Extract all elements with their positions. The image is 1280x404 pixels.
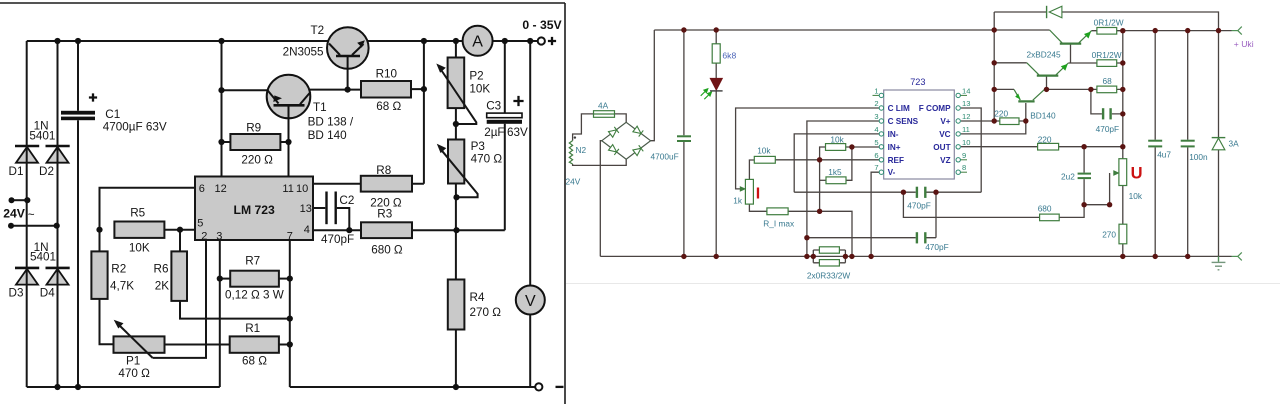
resistor 220 out — [1038, 143, 1059, 150]
transistor BD140 — [1014, 89, 1045, 101]
resistor R4 — [448, 280, 465, 330]
svg-text:3A: 3A — [1229, 139, 1240, 149]
svg-text:1: 1 — [874, 86, 878, 95]
svg-text:IN-: IN- — [888, 130, 899, 139]
svg-text:9: 9 — [962, 151, 966, 160]
svg-text:C1: C1 — [105, 108, 120, 121]
svg-text:6: 6 — [199, 183, 205, 195]
svg-text:P1: P1 — [126, 355, 140, 368]
svg-text:C SENS: C SENS — [888, 117, 919, 126]
transistor BD245 b — [1027, 63, 1069, 76]
wire 2x0R33 forks — [807, 250, 846, 263]
svg-text:0R1/2W: 0R1/2W — [1092, 50, 1122, 60]
IC 723 pin circles left — [873, 93, 884, 174]
svg-text:2: 2 — [874, 99, 878, 108]
resistor R9 — [230, 134, 280, 150]
resistor R10 — [361, 81, 411, 98]
transformer N2 winding — [569, 141, 572, 164]
resistor R1 — [230, 336, 279, 352]
diode D2 — [46, 146, 70, 163]
svg-text:R6: R6 — [154, 263, 169, 276]
IC pin numbers left — [874, 86, 878, 172]
wire 10k upper right to IN+ — [846, 146, 880, 148]
capacitor C3 — [487, 96, 524, 124]
ground — [1212, 256, 1226, 269]
svg-text:5401: 5401 — [30, 250, 56, 263]
svg-text:470pF: 470pF — [925, 242, 949, 252]
IC 723 box — [884, 90, 955, 179]
wire VC elbow — [961, 121, 1026, 134]
terminal + output — [538, 37, 556, 45]
wire BD245b emitter to 0R1 — [1068, 62, 1123, 64]
wire left column D1/D3 — [26, 41, 28, 387]
junction dots right schematic — [681, 27, 1221, 259]
wire pin12 column — [221, 41, 223, 177]
potentiometer P2 — [436, 58, 476, 125]
potentiometer 10k voltage — [1114, 159, 1127, 186]
bridge diode bottom-right — [633, 145, 644, 156]
svg-text:2u2: 2u2 — [1061, 172, 1075, 182]
svg-text:R9: R9 — [246, 122, 261, 135]
wire C2 right elbow — [337, 208, 350, 230]
wire pin2 column to P1 wiper — [153, 240, 206, 358]
svg-text:OUT: OUT — [933, 143, 950, 152]
svg-text:100n: 100n — [1189, 152, 1208, 162]
svg-text:11: 11 — [282, 183, 293, 195]
wire transformer bottom to bridge bottom — [573, 159, 627, 165]
svg-text:6k8: 6k8 — [722, 51, 736, 61]
wire C SENS loop — [807, 121, 879, 256]
IC U1 LM723 — [195, 177, 313, 241]
svg-text:BD140: BD140 — [1030, 111, 1056, 121]
wire 470pF right elbow — [1091, 89, 1123, 114]
resistor 2x0R33 lower — [819, 260, 839, 266]
svg-text:12: 12 — [215, 183, 227, 195]
wire pin10 to R8 — [313, 183, 361, 185]
svg-text:10k: 10k — [830, 135, 844, 145]
svg-text:470 Ω: 470 Ω — [118, 367, 150, 380]
wire 3A diode column — [1218, 31, 1220, 257]
capacitor 4700uF — [677, 135, 691, 142]
svg-text:P2: P2 — [469, 70, 483, 83]
svg-text:D4: D4 — [40, 286, 55, 299]
wire 10k upper left elbow — [820, 147, 826, 211]
wire fuse to bridge top — [615, 114, 627, 122]
wire T1 collector to R10 — [310, 89, 362, 91]
svg-text:7: 7 — [287, 230, 293, 242]
svg-text:~: ~ — [28, 209, 35, 222]
wire pin4 to R3 — [313, 229, 361, 231]
bridge diode bottom-left — [608, 144, 619, 155]
svg-text:7: 7 — [874, 163, 878, 172]
resistor 68 — [1097, 86, 1117, 93]
wire BD140 base stem — [1025, 103, 1027, 121]
wire pin13 to C2 — [313, 207, 325, 209]
wire bottom rail left — [27, 386, 220, 388]
svg-text:3: 3 — [874, 112, 878, 121]
wire pin6 column — [100, 188, 196, 345]
svg-text:24V: 24V — [566, 176, 581, 186]
wire 24V input lower — [11, 225, 57, 227]
svg-text:723: 723 — [910, 77, 925, 87]
diode D1 — [15, 146, 39, 163]
wire R9 left — [222, 141, 231, 143]
svg-text:220: 220 — [994, 109, 1008, 119]
svg-text:4: 4 — [874, 125, 878, 134]
wire minus bus — [600, 255, 1231, 257]
svg-text:2: 2 — [201, 230, 207, 242]
resistor 10k left — [754, 156, 775, 163]
wire R5 right to pin5 — [164, 229, 195, 231]
svg-text:13: 13 — [962, 99, 970, 108]
diode top — [1047, 6, 1062, 18]
wire V+ pin12 — [961, 120, 994, 122]
svg-text:10: 10 — [296, 183, 308, 195]
diode D4 — [46, 268, 70, 285]
svg-text:11: 11 — [962, 125, 970, 134]
svg-text:0R1/2W: 0R1/2W — [1094, 18, 1124, 28]
wire column V meter — [529, 41, 531, 387]
wire bottom rail right — [290, 386, 536, 388]
resistor 0R1/2W b — [1097, 60, 1117, 67]
resistor R3 — [361, 222, 412, 238]
wire top diode row — [994, 12, 1218, 31]
capacitor 4u7 — [1148, 140, 1162, 148]
terminal - output — [535, 383, 563, 390]
svg-text:4: 4 — [304, 224, 310, 236]
svg-text:BD 140: BD 140 — [308, 129, 347, 142]
LED D5 — [701, 78, 723, 99]
svg-text:R5: R5 — [130, 206, 145, 219]
capacitor 100n — [1181, 140, 1195, 148]
wire V- column — [871, 172, 879, 256]
capacitor C1 — [61, 93, 97, 120]
svg-text:BD 138 /: BD 138 / — [308, 116, 354, 129]
wire pin7 column — [289, 240, 291, 387]
svg-text:10K: 10K — [469, 83, 490, 96]
capacitor 470pF lower — [916, 232, 927, 243]
ammeter A — [463, 26, 493, 56]
svg-text:270: 270 — [1102, 230, 1116, 240]
wire R3 right to C3 column — [412, 229, 505, 231]
capacitor 470pF comp — [916, 187, 927, 198]
svg-text:0 - 35V: 0 - 35V — [522, 18, 562, 32]
svg-text:24V: 24V — [3, 206, 26, 220]
wire BD245b collector row — [994, 62, 1027, 64]
svg-text:63V: 63V — [507, 126, 528, 139]
wire R_I max right to bus — [788, 211, 852, 256]
svg-text:T1: T1 — [313, 101, 327, 114]
svg-text:680 Ω: 680 Ω — [371, 244, 403, 257]
wire BD245a emitter to 0R1 — [1092, 30, 1123, 32]
capacitor 2u2 — [1078, 173, 1091, 180]
svg-text:+ Uki: + Uki — [1234, 39, 1254, 49]
svg-text:IN+: IN+ — [888, 143, 901, 152]
svg-text:470pF: 470pF — [321, 233, 354, 246]
resistor R_I max — [767, 208, 788, 215]
wire column 1123 — [1122, 31, 1124, 147]
resistor R2 — [91, 251, 107, 299]
wire P1 right to R1 — [165, 344, 230, 346]
svg-text:2xBD245: 2xBD245 — [1027, 50, 1062, 60]
wire +Uki row — [1123, 30, 1232, 32]
wire 680 row from comp node — [903, 192, 1039, 217]
resistor 2x0R33 upper — [819, 247, 839, 253]
svg-text:R7: R7 — [245, 255, 260, 268]
svg-text:14: 14 — [962, 86, 970, 95]
svg-text:13: 13 — [300, 203, 312, 215]
svg-text:1k: 1k — [733, 195, 743, 205]
svg-text:680: 680 — [1038, 203, 1052, 213]
svg-text:R2: R2 — [111, 263, 126, 276]
svg-text:4A: 4A — [598, 101, 609, 111]
wire BD245a base stem — [1070, 44, 1072, 63]
resistor 220 left — [1000, 118, 1019, 125]
svg-text:V+: V+ — [940, 117, 950, 126]
svg-text:220 Ω: 220 Ω — [241, 154, 273, 167]
svg-text:2x0R33/2W: 2x0R33/2W — [807, 271, 851, 281]
svg-text:8: 8 — [962, 163, 966, 172]
bridge diode top-right — [633, 126, 644, 137]
terminal +Uki — [1232, 27, 1242, 35]
transistor T2 — [327, 27, 369, 69]
svg-text:5401: 5401 — [29, 129, 55, 142]
svg-text:VZ: VZ — [940, 156, 950, 165]
wire R1 right — [279, 344, 290, 346]
wire pin3 column — [219, 240, 221, 387]
svg-text:R4: R4 — [470, 291, 485, 304]
junction dots left schematic — [24, 38, 533, 390]
svg-text:D2: D2 — [39, 165, 54, 178]
svg-text:P3: P3 — [471, 140, 485, 153]
svg-text:5: 5 — [197, 217, 203, 229]
wire V+ rail — [654, 29, 1049, 31]
svg-text:6: 6 — [874, 151, 878, 160]
wire column C1 — [77, 41, 79, 111]
svg-text:12: 12 — [962, 112, 970, 121]
svg-text:470pF: 470pF — [907, 200, 931, 210]
wire top rail — [27, 40, 538, 42]
potentiometer 1k current — [740, 179, 753, 204]
potentiometer P1 — [114, 320, 165, 358]
wire BD245b base stem — [1046, 76, 1048, 89]
svg-text:R8: R8 — [376, 164, 391, 177]
bridge rectifier diamond — [602, 122, 651, 159]
svg-text:VC: VC — [939, 130, 950, 139]
wire 1k5 left — [820, 179, 826, 181]
svg-text:1k5: 1k5 — [828, 167, 842, 177]
resistor 680 — [1040, 214, 1060, 221]
svg-text:A: A — [472, 34, 483, 51]
bridge diode top-left — [608, 127, 619, 138]
wire column D2/D4 — [57, 41, 59, 387]
svg-text:R3: R3 — [377, 208, 392, 221]
wire 24V input upper — [12, 199, 28, 201]
svg-text:68 Ω: 68 Ω — [376, 100, 401, 113]
capacitor C2 — [325, 192, 337, 225]
transformer polarity mark — [574, 136, 576, 138]
wire cap2 vertical link — [927, 192, 937, 238]
svg-text:68 Ω: 68 Ω — [242, 355, 267, 368]
svg-text:R10: R10 — [376, 68, 398, 81]
capacitor 470pF right — [1102, 108, 1112, 119]
svg-text:C LIM: C LIM — [888, 104, 910, 113]
svg-text:10k: 10k — [757, 146, 771, 156]
resistor 270 — [1119, 224, 1127, 244]
svg-text:V: V — [525, 293, 536, 310]
svg-text:2µF: 2µF — [484, 126, 504, 139]
svg-text:10k: 10k — [1129, 191, 1143, 201]
wire comp row 192 — [794, 191, 981, 193]
wire REF row — [775, 159, 879, 161]
transistor BD245 a — [1050, 30, 1092, 44]
fuse 4A — [594, 111, 615, 118]
svg-text:N2: N2 — [576, 145, 587, 155]
wire 4u7 column — [1154, 31, 1156, 257]
svg-text:10K: 10K — [129, 242, 150, 255]
svg-text:D1: D1 — [9, 165, 24, 178]
wire BD140 collector row to 68 — [1045, 88, 1123, 90]
svg-text:10: 10 — [962, 138, 970, 147]
IC pin numbers right — [962, 86, 970, 172]
potentiometer P3 — [437, 140, 478, 198]
svg-text:470pF: 470pF — [1096, 124, 1120, 134]
svg-text:I: I — [756, 186, 760, 203]
wire T1 base — [222, 89, 268, 91]
wire R6 column — [180, 230, 290, 319]
resistor R5 — [114, 222, 164, 238]
resistor 10k upper — [826, 144, 846, 151]
wire 220 left resistor leads — [994, 120, 1026, 122]
terminal 24V upper — [9, 197, 15, 203]
resistor R6 — [171, 251, 187, 301]
wire pot 10k column — [1122, 147, 1124, 257]
wire pot 10k wiper link — [1084, 173, 1110, 205]
svg-text:4700µF 63V: 4700µF 63V — [103, 120, 167, 133]
svg-text:C3: C3 — [486, 100, 501, 113]
voltmeter V — [516, 286, 545, 315]
svg-text:R_I max: R_I max — [763, 219, 795, 229]
svg-text:REF: REF — [888, 156, 904, 165]
svg-text:2K: 2K — [155, 280, 170, 293]
svg-text:3: 3 — [216, 230, 222, 242]
svg-text:5: 5 — [874, 138, 878, 147]
svg-text:0,12 Ω 3 W: 0,12 Ω 3 W — [225, 288, 284, 301]
wire IN- loop — [794, 134, 879, 192]
svg-text:T2: T2 — [311, 24, 325, 37]
faint separator line — [566, 283, 1280, 285]
wire column 994 — [993, 12, 995, 121]
wire OUT row — [961, 146, 1123, 148]
diode 3A — [1212, 138, 1226, 150]
svg-text:LM 723: LM 723 — [234, 203, 276, 217]
wire C LIM loop — [736, 108, 880, 189]
wire 6k8 LED column — [715, 30, 717, 256]
svg-text:470 Ω: 470 Ω — [471, 153, 503, 166]
resistor R8 — [361, 176, 412, 192]
svg-text:R1: R1 — [245, 322, 260, 335]
wire 4700uF column — [683, 30, 685, 256]
svg-text:U: U — [1131, 164, 1143, 182]
wire column C3 — [504, 41, 506, 230]
svg-text:2N3055: 2N3055 — [283, 46, 324, 59]
svg-text:F COMP: F COMP — [919, 104, 951, 113]
resistor 0R1/2W a — [1097, 28, 1117, 35]
svg-text:D3: D3 — [9, 286, 24, 299]
svg-text:220: 220 — [1038, 135, 1052, 145]
wire pot 1k bottom to R_I max — [749, 204, 767, 211]
wire pot 1k top — [749, 160, 754, 179]
wire T2 base stem — [347, 67, 349, 90]
wire R9 right — [280, 141, 288, 143]
svg-text:68: 68 — [1103, 76, 1113, 86]
wire column P2 P3 R4 — [455, 41, 457, 387]
resistor R7 — [230, 271, 279, 287]
wire 100n column — [1187, 31, 1189, 257]
diode D3 — [15, 268, 39, 285]
wire R7 left — [220, 278, 230, 280]
svg-text:270 Ω: 270 Ω — [470, 306, 502, 319]
wire bridge right to top rail — [651, 30, 655, 141]
svg-text:V-: V- — [888, 168, 896, 177]
svg-text:4u7: 4u7 — [1157, 150, 1171, 160]
wire cap2 row — [807, 237, 916, 239]
terminal minus — [1232, 252, 1242, 260]
wire transformer to fuse — [573, 114, 594, 141]
wire R7 right — [279, 278, 290, 280]
terminal 24V lower — [8, 223, 14, 229]
wire 1k5 right — [846, 147, 852, 180]
wire 2u2 column — [1083, 147, 1085, 205]
wire bridge left to minus bus — [600, 141, 602, 257]
transistor T1 — [267, 75, 311, 177]
resistor 6k8 — [712, 44, 720, 63]
wire F COMP elbow — [961, 108, 981, 192]
wire 680 right elbow — [1059, 205, 1084, 218]
wire R10 right column — [411, 41, 424, 184]
svg-text:C2: C2 — [339, 194, 354, 207]
wire BD140 emitter row — [994, 88, 1014, 90]
svg-text:4,7K: 4,7K — [110, 280, 134, 293]
IC 723 pin circles right — [956, 93, 967, 174]
svg-text:4700uF: 4700uF — [651, 152, 679, 162]
resistor 1k5 — [826, 177, 846, 184]
